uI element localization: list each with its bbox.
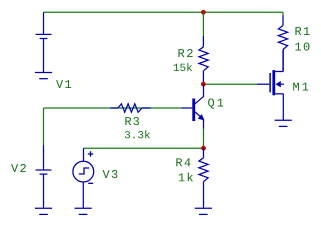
wire emitter vertical bbox=[203, 129, 205, 149]
wire top power rail bbox=[44, 11, 284, 13]
label V2 bbox=[11, 164, 26, 172]
ground (V3) bbox=[75, 207, 92, 209]
ground (V2) bbox=[35, 207, 52, 209]
source V3 bbox=[83, 148, 85, 161]
label V3 bbox=[103, 170, 118, 178]
node top junction dot bbox=[201, 10, 206, 15]
mosfet M1 bbox=[257, 83, 269, 85]
wire V2 top drop bbox=[43, 108, 45, 145]
battery V1 bbox=[43, 12, 45, 34]
resistor R1 bbox=[282, 16, 284, 26]
wire emitter net horizontal (V3 to R4 node) bbox=[84, 147, 204, 149]
resistor R4 bbox=[203, 148, 205, 158]
resistor R3 bbox=[111, 107, 119, 109]
resistor R2 bbox=[202, 36, 204, 47]
node collector junction dot bbox=[201, 82, 206, 87]
ground (V1) bbox=[35, 72, 52, 74]
label R3 value bbox=[125, 117, 139, 125]
wire gate net bbox=[206, 83, 258, 85]
node emitter junction dot bbox=[201, 146, 206, 151]
label R1 value bbox=[295, 27, 309, 35]
wire base net horizontal (V2/R3 to Q1 base) bbox=[44, 107, 182, 109]
transistor Q1 bbox=[182, 107, 193, 109]
ground (R4) bbox=[195, 207, 212, 209]
battery V2 bbox=[43, 145, 45, 170]
wire R2 top bbox=[202, 12, 204, 36]
label Q1 bbox=[208, 98, 223, 108]
wire R1 top bbox=[282, 12, 284, 15]
label M1 bbox=[293, 83, 308, 91]
label V1 bbox=[56, 80, 71, 88]
ground (M1) bbox=[275, 119, 292, 121]
label R2 value bbox=[178, 49, 192, 57]
label R4 value bbox=[176, 158, 190, 166]
